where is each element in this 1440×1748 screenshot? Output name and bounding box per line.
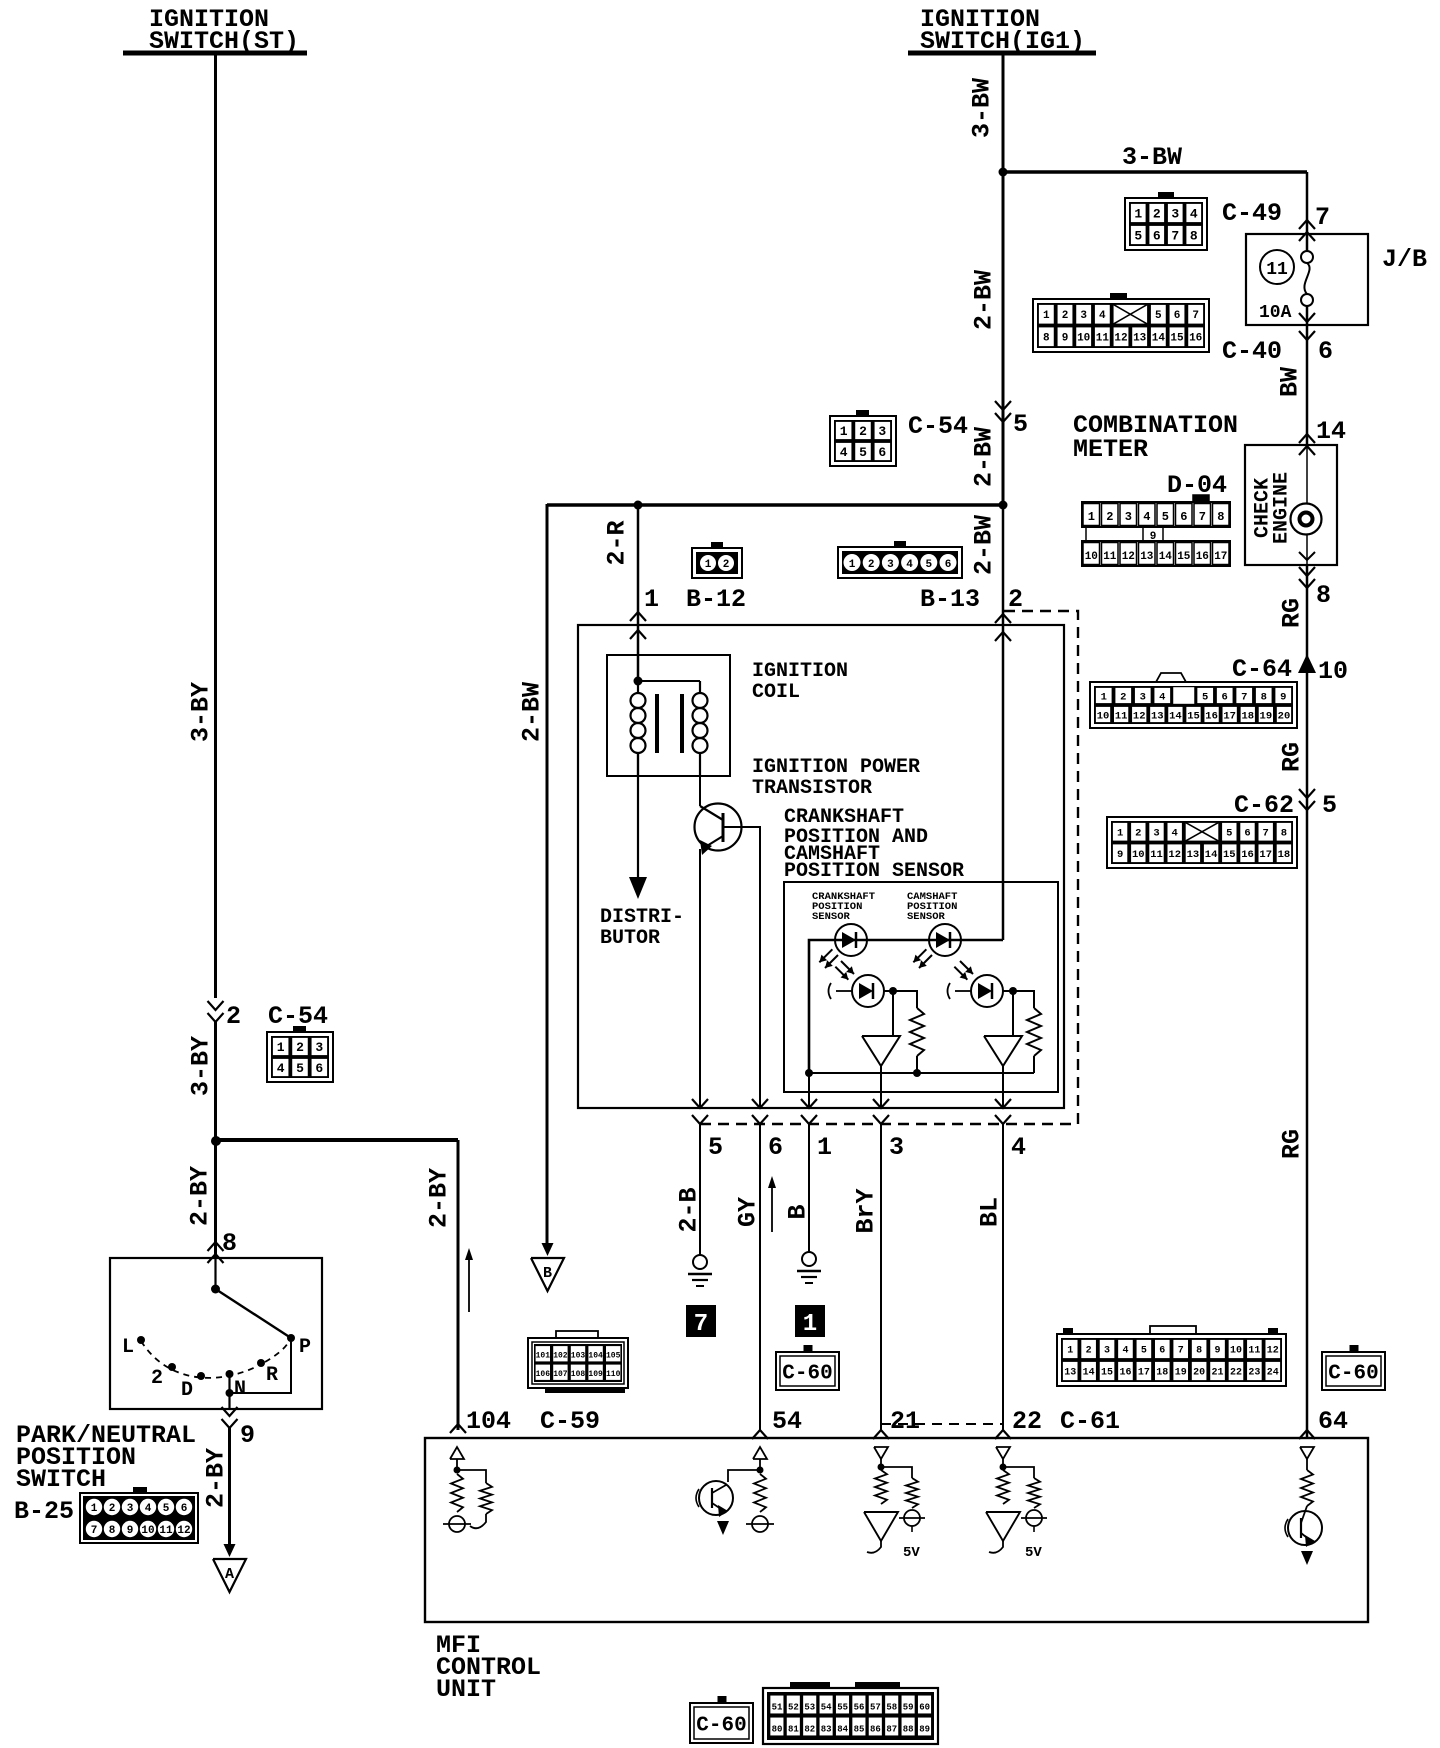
MFI 5V supply terminal xyxy=(899,1510,925,1561)
svg-text:6: 6 xyxy=(1318,337,1333,366)
coil secondary winding xyxy=(693,681,708,776)
svg-text:6: 6 xyxy=(1159,1346,1165,1357)
svg-text:1: 1 xyxy=(817,1133,832,1162)
off-page ground B wire arrowhead xyxy=(542,1243,554,1256)
svg-text:J/B: J/B xyxy=(1382,245,1427,274)
power source IGNITION SWITCH(ST) xyxy=(123,5,307,56)
svg-text:11: 11 xyxy=(159,1525,173,1537)
svg-text:2: 2 xyxy=(226,1002,241,1031)
ground code 7 black box xyxy=(686,1305,716,1337)
svg-text:82: 82 xyxy=(804,1725,815,1735)
svg-text:1: 1 xyxy=(1117,828,1123,840)
dashed link pin21-pin22 xyxy=(881,1423,1003,1425)
svg-text:56: 56 xyxy=(854,1703,865,1713)
svg-text:2: 2 xyxy=(868,559,875,571)
wire 2-R to ignition coil xyxy=(637,505,640,681)
svg-text:14: 14 xyxy=(1159,551,1173,563)
svg-text:D: D xyxy=(181,1379,193,1402)
svg-text:8: 8 xyxy=(1261,691,1267,703)
svg-text:110: 110 xyxy=(606,1370,621,1379)
svg-text:2: 2 xyxy=(109,1503,116,1515)
pin 5 arrows at C-62 xyxy=(1299,789,1315,810)
pin 22 arrow into MFI xyxy=(995,1430,1011,1439)
svg-text:13: 13 xyxy=(1151,710,1164,722)
svg-text:102: 102 xyxy=(553,1352,568,1361)
svg-text:POSITION SENSOR: POSITION SENSOR xyxy=(784,860,964,883)
crankshaft sensor LED xyxy=(835,924,867,956)
svg-text:B-12: B-12 xyxy=(686,585,746,614)
MFI comparator triangle xyxy=(986,1512,1020,1553)
svg-text:2: 2 xyxy=(859,424,867,439)
svg-text:13: 13 xyxy=(1064,1368,1076,1379)
connector C-49 xyxy=(1125,192,1207,250)
camshaft phototransistor xyxy=(948,975,1004,1007)
svg-text:5: 5 xyxy=(1226,828,1232,840)
svg-text:5: 5 xyxy=(1322,791,1337,820)
svg-text:10: 10 xyxy=(1230,1346,1242,1357)
crank load resistor xyxy=(893,991,924,1073)
svg-text:2-BW: 2-BW xyxy=(970,270,999,330)
svg-text:5V: 5V xyxy=(903,1545,920,1561)
svg-text:4: 4 xyxy=(1099,310,1106,322)
pin 8 arrows below check engine xyxy=(1299,567,1315,588)
svg-text:85: 85 xyxy=(854,1725,865,1735)
svg-text:9: 9 xyxy=(240,1421,255,1450)
svg-text:10: 10 xyxy=(1318,657,1348,686)
component label IGNITION COIL xyxy=(752,660,848,704)
svg-text:2: 2 xyxy=(1120,691,1126,703)
MFI 5V supply terminal xyxy=(1021,1510,1047,1561)
svg-text:15: 15 xyxy=(1170,333,1184,345)
svg-text:83: 83 xyxy=(821,1725,832,1735)
park/neutral position switch box xyxy=(110,1258,322,1409)
connector B-13 xyxy=(838,541,962,578)
connector C-62 xyxy=(1107,817,1297,868)
MFI input triangle at x=881 xyxy=(874,1447,888,1459)
junction block J/B box xyxy=(1246,234,1368,325)
svg-text:54: 54 xyxy=(772,1407,802,1436)
switch contact N xyxy=(226,1370,234,1409)
svg-text:1: 1 xyxy=(1101,691,1107,703)
svg-text:80: 80 xyxy=(772,1725,783,1735)
svg-text:C-60: C-60 xyxy=(1328,1363,1378,1386)
svg-text:5: 5 xyxy=(859,445,867,460)
svg-text:BrY: BrY xyxy=(852,1188,881,1233)
svg-text:64: 64 xyxy=(1318,1407,1348,1436)
svg-text:RG: RG xyxy=(1278,742,1307,772)
svg-text:2-BY: 2-BY xyxy=(425,1168,454,1228)
connector B-12 xyxy=(692,542,742,578)
svg-text:12: 12 xyxy=(1122,551,1135,563)
svg-text:15: 15 xyxy=(1101,1368,1113,1379)
wire 3-BW from IG1 xyxy=(1002,55,1005,505)
cam output buffer triangle xyxy=(984,991,1022,1066)
svg-text:5: 5 xyxy=(1134,229,1142,244)
svg-text:8: 8 xyxy=(222,1229,237,1258)
wire 3-BY from ignition switch ST xyxy=(214,55,217,998)
check engine lamp box xyxy=(1245,445,1337,565)
svg-text:6: 6 xyxy=(1222,691,1228,703)
camshaft sensor LED xyxy=(929,924,961,956)
svg-text:5: 5 xyxy=(1013,410,1028,439)
svg-text:BW: BW xyxy=(1276,367,1305,397)
dashed sensor boundary box xyxy=(700,611,1078,1124)
svg-text:81: 81 xyxy=(788,1725,799,1735)
svg-text:9: 9 xyxy=(127,1525,134,1537)
pin 4 arrows at distributor box bottom xyxy=(995,1099,1011,1124)
svg-text:N: N xyxy=(234,1378,246,1401)
svg-text:103: 103 xyxy=(571,1352,586,1361)
svg-text:8: 8 xyxy=(1316,581,1331,610)
svg-text:10: 10 xyxy=(1077,333,1090,345)
svg-text:8: 8 xyxy=(109,1525,116,1537)
svg-text:84: 84 xyxy=(837,1725,848,1735)
connector C-64 xyxy=(1090,673,1297,728)
connector C-60 (bottom symbol) xyxy=(690,1703,753,1743)
svg-text:3: 3 xyxy=(1140,691,1146,703)
svg-text:COIL: COIL xyxy=(752,681,800,704)
svg-text:RG: RG xyxy=(1278,598,1307,628)
svg-text:6: 6 xyxy=(1180,510,1187,524)
wire coil to distributor xyxy=(637,754,639,877)
contact dot D xyxy=(197,1372,205,1380)
svg-text:7: 7 xyxy=(1263,828,1269,840)
pin 2 arrows into distributor box xyxy=(995,614,1011,641)
svg-text:7: 7 xyxy=(1241,691,1247,703)
cam PT output node xyxy=(1003,987,1017,995)
sensor ground bus xyxy=(805,1069,1034,1077)
svg-text:6: 6 xyxy=(1244,828,1250,840)
arrowhead into ground A xyxy=(224,1544,236,1557)
component label COMBINATION METER xyxy=(1073,411,1238,464)
svg-text:ENGINE: ENGINE xyxy=(1270,472,1293,544)
svg-text:5: 5 xyxy=(925,559,932,571)
svg-text:6: 6 xyxy=(181,1503,188,1515)
svg-text:C-62: C-62 xyxy=(1234,791,1294,820)
svg-text:52: 52 xyxy=(788,1703,799,1713)
MFI pin64 resistor xyxy=(1301,1459,1313,1506)
svg-text:57: 57 xyxy=(870,1703,881,1713)
svg-text:C-40: C-40 xyxy=(1222,337,1282,366)
svg-text:23: 23 xyxy=(1248,1368,1260,1379)
svg-text:21: 21 xyxy=(1212,1368,1224,1379)
wire coil secondary to transistor xyxy=(699,776,701,806)
svg-text:14: 14 xyxy=(1083,1368,1095,1379)
svg-text:DISTRI-: DISTRI- xyxy=(600,906,684,929)
svg-text:106: 106 xyxy=(536,1370,551,1379)
connector C-59 xyxy=(528,1331,628,1393)
MFI pin 54 input triangle xyxy=(753,1447,767,1459)
ground symbol (pin 1) xyxy=(797,1252,821,1283)
svg-text:C-64: C-64 xyxy=(1232,655,1292,684)
svg-text:89: 89 xyxy=(919,1725,930,1735)
junction 3-BW branch xyxy=(999,168,1008,177)
svg-text:15: 15 xyxy=(1177,551,1191,563)
coil core xyxy=(657,694,682,753)
wire 2-B to ground xyxy=(699,1124,701,1255)
coil primary winding xyxy=(631,681,646,776)
svg-text:7: 7 xyxy=(1199,510,1206,524)
wire RG from combination meter xyxy=(1306,565,1309,1437)
direction arrow beside 2-BY wire xyxy=(465,1248,473,1312)
connector C-60 (pin 54) xyxy=(776,1352,839,1390)
connector C-54 (left) xyxy=(267,1026,333,1082)
wire 2-BW left drop to ground B xyxy=(546,504,549,1245)
svg-text:METER: METER xyxy=(1073,435,1148,464)
svg-text:6: 6 xyxy=(768,1133,783,1162)
component label PARK/NEUTRAL POSITION SWITCH xyxy=(16,1421,196,1494)
svg-text:2: 2 xyxy=(1135,828,1141,840)
svg-text:3: 3 xyxy=(1171,207,1179,222)
svg-text:6: 6 xyxy=(945,559,952,571)
svg-text:24: 24 xyxy=(1267,1368,1279,1379)
wire cam output to pin 4 xyxy=(1002,1066,1004,1108)
svg-text:3-BY: 3-BY xyxy=(187,682,216,742)
cam load resistor xyxy=(1013,991,1041,1073)
label CAMSHAFT POSITION SENSOR (small) xyxy=(907,891,957,923)
svg-text:SENSOR: SENSOR xyxy=(812,911,851,923)
pin 10 arrow xyxy=(1298,654,1316,673)
svg-text:5: 5 xyxy=(163,1503,170,1515)
camshaft PT light arrows xyxy=(960,961,973,974)
svg-text:11: 11 xyxy=(1150,849,1163,861)
svg-text:1: 1 xyxy=(1067,1346,1073,1357)
svg-text:11: 11 xyxy=(1096,333,1110,345)
svg-text:10: 10 xyxy=(1085,551,1098,563)
fuse 11 circled number xyxy=(1260,250,1294,284)
svg-text:20: 20 xyxy=(1193,1368,1205,1379)
svg-text:4: 4 xyxy=(277,1061,285,1076)
svg-text:2-BY: 2-BY xyxy=(186,1166,215,1226)
svg-text:2-BW: 2-BW xyxy=(970,427,999,487)
wire 3-BW horizontal to J/B xyxy=(1003,172,1307,252)
wire sensor common to pin 1 xyxy=(808,1073,810,1108)
MFI pin104 pull-up resistor xyxy=(451,1459,463,1512)
svg-text:9: 9 xyxy=(1215,1346,1221,1357)
svg-text:2-BW: 2-BW xyxy=(970,515,999,575)
svg-text:UNIT: UNIT xyxy=(436,1675,496,1704)
svg-text:4: 4 xyxy=(1011,1133,1026,1162)
contact dot 2 xyxy=(168,1363,176,1371)
svg-text:3: 3 xyxy=(1153,828,1159,840)
fuse symbol in J/B xyxy=(1301,251,1313,306)
pin 5 arrows at distributor box bottom xyxy=(692,1099,708,1124)
connector C-61 xyxy=(1057,1326,1286,1386)
svg-text:4: 4 xyxy=(1172,828,1178,840)
svg-text:13: 13 xyxy=(1133,333,1147,345)
crank output buffer triangle xyxy=(862,991,900,1066)
connector C-60 (pin 64) xyxy=(1322,1352,1385,1390)
svg-text:10A: 10A xyxy=(1259,303,1292,323)
svg-text:2: 2 xyxy=(1008,585,1023,614)
crankshaft PT light arrows xyxy=(841,961,854,974)
arrow out of J/B xyxy=(1299,313,1315,322)
svg-text:1: 1 xyxy=(1043,310,1050,322)
component label CHECK ENGINE (rotated) xyxy=(1251,472,1293,544)
svg-text:17: 17 xyxy=(1138,1368,1150,1379)
pin 5 arrows at C-54 xyxy=(995,401,1011,422)
pin 1 arrows into distributor box xyxy=(630,612,646,639)
svg-text:12: 12 xyxy=(1168,849,1181,861)
svg-text:C-61: C-61 xyxy=(1060,1407,1120,1436)
svg-text:12: 12 xyxy=(1133,710,1146,722)
wire 2-BW to distributor box pin 2 xyxy=(1002,505,1005,940)
svg-text:59: 59 xyxy=(903,1703,914,1713)
svg-text:10: 10 xyxy=(141,1525,154,1537)
wire transistor base to pin 6 xyxy=(723,827,760,1108)
svg-text:18: 18 xyxy=(1278,849,1291,861)
distributor assembly box xyxy=(578,625,1064,1108)
connector C-54 crossing pin 2 arrows xyxy=(208,1001,224,1022)
component label IGNITION POWER TRANSISTOR xyxy=(752,756,920,800)
svg-text:5: 5 xyxy=(1162,510,1169,524)
svg-text:13: 13 xyxy=(1187,849,1200,861)
svg-text:11: 11 xyxy=(1103,551,1117,563)
crankshaft LED light arrows xyxy=(825,955,838,968)
svg-text:3: 3 xyxy=(887,559,894,571)
svg-text:5: 5 xyxy=(708,1133,723,1162)
svg-text:3: 3 xyxy=(1125,510,1132,524)
MFI 5V pull-up resistor xyxy=(1003,1467,1040,1508)
pin 104 arrow into MFI xyxy=(450,1424,466,1433)
svg-text:1: 1 xyxy=(849,559,856,571)
sensor supply wire xyxy=(809,940,1003,1073)
switch position arc (dashed) xyxy=(141,1341,288,1378)
svg-text:3: 3 xyxy=(889,1133,904,1162)
svg-text:8: 8 xyxy=(1043,333,1050,345)
svg-text:60: 60 xyxy=(919,1703,930,1713)
svg-text:1: 1 xyxy=(803,1311,817,1338)
wire BW from J/B to combination meter xyxy=(1306,306,1309,445)
junction 2-R branch xyxy=(634,501,643,510)
svg-text:4: 4 xyxy=(1190,207,1198,222)
svg-text:108: 108 xyxy=(571,1370,586,1379)
switch contact P wiring xyxy=(226,1338,292,1397)
connector B-25 xyxy=(80,1487,198,1543)
svg-text:2: 2 xyxy=(1153,207,1161,222)
ground code 1 black box xyxy=(795,1305,825,1337)
svg-text:3: 3 xyxy=(878,424,886,439)
MFI 5V pull-up resistor xyxy=(881,1467,918,1508)
svg-text:SWITCH: SWITCH xyxy=(16,1465,106,1494)
svg-text:13: 13 xyxy=(1140,551,1154,563)
svg-text:16: 16 xyxy=(1189,333,1202,345)
svg-text:8: 8 xyxy=(1196,1346,1202,1357)
svg-text:7: 7 xyxy=(694,1311,708,1338)
svg-text:11: 11 xyxy=(1115,710,1128,722)
svg-text:17: 17 xyxy=(1259,849,1272,861)
svg-text:17: 17 xyxy=(1223,710,1236,722)
svg-text:15: 15 xyxy=(1223,849,1236,861)
svg-text:GY: GY xyxy=(734,1197,763,1227)
svg-text:5: 5 xyxy=(1155,310,1162,322)
svg-text:2-BW: 2-BW xyxy=(518,682,547,742)
sensor inner box xyxy=(784,882,1058,1092)
svg-text:6: 6 xyxy=(1153,229,1161,244)
svg-text:18: 18 xyxy=(1241,710,1254,722)
svg-text:10: 10 xyxy=(1097,710,1110,722)
svg-text:3-BY: 3-BY xyxy=(187,1036,216,1096)
svg-text:B: B xyxy=(543,1265,552,1282)
svg-text:2: 2 xyxy=(1086,1346,1092,1357)
coil top link wire xyxy=(638,680,700,682)
off-page connector B (triangle) xyxy=(531,1258,564,1291)
svg-text:22: 22 xyxy=(1230,1368,1242,1379)
wire BrY pin3 to MFI 21 xyxy=(880,1124,882,1430)
svg-text:C-60: C-60 xyxy=(782,1363,832,1386)
svg-text:C-54: C-54 xyxy=(268,1002,328,1031)
MFI input resistor xyxy=(875,1459,887,1504)
svg-text:5V: 5V xyxy=(1025,1545,1042,1561)
ignition power transistor Q1 xyxy=(695,804,742,856)
pin 21 arrow into MFI xyxy=(873,1430,889,1439)
svg-text:2: 2 xyxy=(1106,510,1113,524)
svg-text:4: 4 xyxy=(1159,691,1165,703)
svg-text:107: 107 xyxy=(553,1370,568,1379)
contact dot R xyxy=(257,1359,265,1367)
svg-text:B-25: B-25 xyxy=(14,1497,74,1526)
svg-text:6: 6 xyxy=(1174,310,1181,322)
svg-text:9: 9 xyxy=(1117,849,1123,861)
crank PT output node xyxy=(884,987,897,995)
svg-text:3: 3 xyxy=(315,1040,323,1055)
wire transistor emitter to pin 5 xyxy=(699,849,701,1108)
ignition coil box xyxy=(607,655,730,776)
pin 9 arrows below park/neutral switch xyxy=(222,1407,238,1428)
switch movable arm to P xyxy=(216,1289,296,1342)
svg-text:L: L xyxy=(122,1336,134,1359)
pin 1 arrows at distributor box bottom xyxy=(801,1099,817,1124)
pin 14 arrows into combination meter xyxy=(1299,434,1315,455)
svg-text:12: 12 xyxy=(177,1525,190,1537)
MFI pin104 terminal circle xyxy=(443,1516,471,1532)
MFI pin104 secondary resistor xyxy=(457,1470,492,1528)
crankshaft phototransistor xyxy=(829,975,885,1007)
MFI driver transistor (pin54) xyxy=(696,1470,760,1535)
MFI comparator triangle xyxy=(864,1512,898,1553)
connector C-60 (bottom, full) xyxy=(763,1682,938,1744)
svg-text:C-54: C-54 xyxy=(908,412,968,441)
svg-text:55: 55 xyxy=(837,1703,848,1713)
power source IGNITION SWITCH(IG1) xyxy=(908,5,1096,56)
junction 2-BW at horizontal bus xyxy=(999,501,1008,510)
check engine bulb xyxy=(1291,445,1322,565)
MFI pin 104 input triangle xyxy=(450,1447,464,1459)
svg-text:8: 8 xyxy=(1281,828,1287,840)
svg-text:1: 1 xyxy=(1134,207,1142,222)
wire crank output to pin 3 xyxy=(880,1066,882,1108)
svg-text:101: 101 xyxy=(536,1352,551,1361)
svg-text:12: 12 xyxy=(1267,1346,1279,1357)
svg-text:2: 2 xyxy=(723,559,730,571)
svg-text:2-B: 2-B xyxy=(675,1187,704,1232)
svg-text:4: 4 xyxy=(840,445,848,460)
svg-text:54: 54 xyxy=(821,1703,832,1713)
MFI pin54 terminal circle xyxy=(746,1516,774,1532)
svg-text:2: 2 xyxy=(151,1367,163,1390)
svg-text:5: 5 xyxy=(296,1061,304,1076)
pin 8 arrows into park/neutral switch xyxy=(208,1242,224,1263)
pin 64 arrow into MFI xyxy=(1299,1430,1315,1439)
svg-text:10: 10 xyxy=(1132,849,1145,861)
svg-text:53: 53 xyxy=(804,1703,815,1713)
svg-text:21: 21 xyxy=(890,1407,920,1436)
pin 54 arrow into MFI xyxy=(752,1430,768,1439)
svg-text:3: 3 xyxy=(1080,310,1087,322)
svg-text:88: 88 xyxy=(903,1725,914,1735)
svg-text:3: 3 xyxy=(127,1503,134,1515)
svg-text:11: 11 xyxy=(1248,1346,1260,1357)
